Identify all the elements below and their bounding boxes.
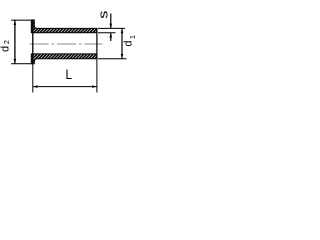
svg-text:s: s: [97, 11, 111, 19]
rivet lower wall section (hatched): [31, 54, 97, 64]
d2 extension line top: [11, 19, 34, 21]
d1 extension line bottom: [98, 58, 127, 60]
d1 arrow up: [121, 28, 124, 33]
d1 dimension line: [121, 28, 123, 58]
svg-text:d2: d2: [0, 40, 11, 52]
L extension line right: [96, 59, 98, 93]
d2 arrow down: [14, 59, 17, 64]
d2 arrow up: [14, 20, 17, 25]
L dimension line: [33, 86, 97, 88]
d2 extension line bottom: [11, 63, 34, 65]
d1 arrow down: [121, 54, 124, 59]
L arrow right: [92, 85, 97, 88]
d1 extension line top: [98, 27, 125, 29]
tube end edge: [96, 28, 98, 58]
L arrow left: [33, 85, 38, 88]
head left face: [32, 20, 34, 64]
rivet upper wall section (hatched): [31, 20, 97, 33]
s dimension upper line with down arrow: [110, 14, 112, 29]
s extension line (wall inner edge, right): [98, 32, 116, 34]
centerline: [30, 43, 103, 45]
s dimension lower line with up arrow: [110, 33, 112, 41]
L extension line left: [32, 64, 34, 93]
d2 dimension line: [14, 20, 16, 64]
svg-text:L: L: [66, 66, 73, 82]
